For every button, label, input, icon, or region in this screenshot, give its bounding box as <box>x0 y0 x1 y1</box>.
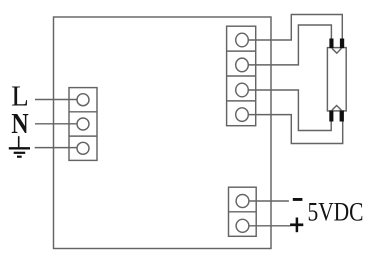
svg-text:5VDC: 5VDC <box>308 199 364 227</box>
svg-text:N: N <box>11 107 28 140</box>
